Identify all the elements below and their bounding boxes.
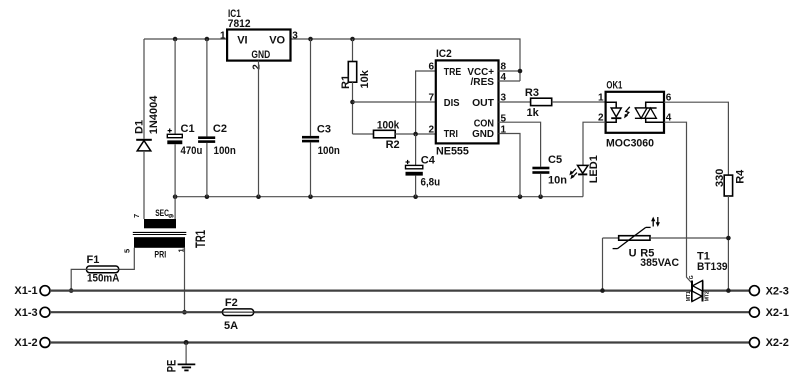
junction: PE tap on X1-2 line [184,340,189,345]
label OK1 [606,80,622,92]
wire: F1 left down to X1-1 line [71,269,86,290]
svg-text:330: 330 [714,169,726,187]
junction: C5 on GND rail [538,194,543,199]
svg-text:TR1: TR1 [193,230,208,248]
value 1N4004 (rotated) [148,95,160,134]
IC2 pin number 2 [428,125,434,136]
capacitor C2 [198,39,215,197]
svg-text:2: 2 [428,125,434,136]
label C1 [181,123,195,135]
IC1 pin name VO [269,35,285,47]
junction: C2 on GND rail [205,194,210,199]
wire: varistor left leg down to mains line [602,238,604,291]
wire: +V top rail left segment [144,38,227,40]
capacitor C4 (electrolytic) [406,134,423,197]
wire: OK1 pin 2 to LED1 [583,122,606,165]
svg-text:/RES: /RES [471,77,495,88]
svg-text:5: 5 [123,249,132,253]
svg-text:1: 1 [598,92,604,103]
svg-text:GND: GND [251,49,270,61]
svg-text:NE555: NE555 [436,146,469,158]
junction: TRI / C4 node [413,132,418,137]
wire: TRE net (pin 6 down to TRI node) [416,71,436,134]
label R2 [386,139,400,151]
wire: CON pin 5 to C5 [499,122,541,167]
svg-text:5: 5 [501,114,507,125]
wire: OUT pin 3 to R3 [499,101,531,103]
label D1 (rotated) [133,120,145,134]
TR1 SEC pin wire right to GND rail [174,197,176,219]
wire: PE stub [185,343,187,364]
junction: R4 leg on mains line [726,288,731,293]
svg-text:G: G [689,275,695,279]
svg-text:C3: C3 [317,124,331,136]
resistor R2 body [374,130,396,138]
svg-text:MOC3060: MOC3060 [606,138,654,150]
junction: pin8/pin4 on +V drop [518,69,523,74]
label R4 (rotated) [735,169,747,184]
label X2-1 [766,307,789,319]
svg-text:VI: VI [237,35,247,47]
label C3 [317,124,331,136]
value MOC3060 [606,138,654,150]
IC2 pin number 7 [428,93,434,104]
svg-text:7: 7 [428,93,434,104]
wire: PRI pin 5 down to F1 [119,248,135,270]
junction: IC1 GND pin on GND rail [256,194,261,199]
value 6,8u [421,177,441,189]
junction: varistor on mains line [600,288,605,293]
wire: R2 right to IC2 TRI pin 2 [395,133,436,135]
OK1 internal LED [606,102,622,122]
IC1 pin name VI [237,35,247,47]
label F1 [87,254,100,266]
svg-text:OK1: OK1 [606,80,622,92]
label LED1 (rotated) [588,155,600,183]
IC2 pin name CON [474,118,494,129]
value 100n (C2) [214,145,237,157]
svg-text:U: U [629,247,637,259]
label X2-2 [766,337,789,349]
value 470u [181,145,203,157]
label R1 (rotated) [340,75,352,89]
label PE (rotated) [167,360,179,373]
value BT139 [697,261,728,273]
wire: PRI pin 1 down to X1-3 line [184,248,186,312]
IC1 pin number 1 [220,31,226,42]
svg-text:GND: GND [472,129,494,140]
svg-text:CON: CON [474,118,494,129]
label T1 [697,251,710,263]
svg-text:D1: D1 [133,120,145,134]
wire: GND pin 1 to GND rail [499,134,521,197]
svg-text:F1: F1 [87,254,100,266]
timer IC2 body [436,60,499,143]
value 100k [377,120,400,132]
LED LED1 [578,165,589,196]
svg-text:150mA: 150mA [87,273,119,285]
svg-text:DIS: DIS [444,98,460,109]
svg-text:5A: 5A [224,320,238,332]
IC2 pin number 3 [501,93,507,104]
fuse F1 [87,266,119,273]
junction: C2 on top rail [205,37,210,42]
TR1 pin 5 (rotated) [123,249,132,253]
label IC1 [228,8,241,20]
ground PE symbol [178,364,196,370]
capacitor C5 [532,167,549,197]
TR1 winding name PRI [154,250,166,261]
svg-text:TRI: TRI [444,129,458,140]
svg-text:PRI: PRI [154,250,166,261]
svg-text:7: 7 [132,214,141,218]
diode D1 [136,140,152,151]
svg-text:6,8u: 6,8u [421,177,441,189]
label C5 [548,154,562,166]
svg-text:BT139: BT139 [697,261,728,273]
svg-text:100n: 100n [214,145,237,157]
terminal X1-1 [40,286,50,296]
svg-text:1N4004: 1N4004 [148,95,160,134]
junction: R1 on top rail [350,37,355,42]
IC2 pin name GND [472,129,494,140]
svg-text:MT2: MT2 [704,291,710,301]
wire: VCC pin 8 stub [499,70,521,72]
svg-text:C1: C1 [181,123,195,135]
svg-text:1: 1 [220,31,226,42]
junction: C1 on top rail [173,37,178,42]
value 330 (rotated) [714,169,726,187]
svg-text:100k: 100k [377,120,400,132]
label IC2 [436,48,452,60]
T1 terminal MT1 (rotated) [686,291,692,301]
wire: OK1 pin 6 to R4 [664,102,728,175]
varistor symbol letter U [629,247,637,259]
C1 plus sign [168,129,172,133]
transformer TR1 PRI coil [134,237,185,248]
svg-text:10n: 10n [548,174,567,186]
value 7812 [228,18,251,30]
TR1 pin 9 (rotated) [166,214,175,218]
svg-text:C5: C5 [548,154,562,166]
svg-text:X1-3: X1-3 [14,307,37,319]
OK1 pin number 1 [598,92,604,103]
label X1-1 [14,285,37,297]
capacitor C3 [302,39,319,197]
svg-text:C4: C4 [421,154,436,166]
wire: R1 bottom to R2 left [353,133,374,135]
IC2 pin name /RES [471,77,495,88]
svg-text:R3: R3 [525,87,539,99]
IC2 pin name OUT [472,98,494,109]
svg-text:C2: C2 [213,123,227,135]
T1 terminal MT2 (rotated) [704,291,710,301]
IC2 pin name TRI [444,129,458,140]
terminal X1-3 [40,307,50,317]
IC2 pin name DIS [444,98,460,109]
label TR1 (rotated) [193,230,208,248]
svg-text:385VAC: 385VAC [640,257,679,269]
fuse F2 [223,309,254,316]
svg-text:X2-3: X2-3 [766,285,789,297]
triac T1 [692,281,703,302]
junction: C3 on GND rail [308,194,313,199]
wire: mains line X1-3 to X2-1 [50,311,750,313]
svg-text:MT1: MT1 [686,291,692,301]
label X2-3 [766,285,789,297]
value 100n (C3) [318,145,341,157]
svg-text:PE: PE [167,360,179,373]
label X1-3 [14,307,37,319]
svg-text:1k: 1k [527,107,540,119]
svg-text:X2-1: X2-1 [766,307,789,319]
junction: F1 branch on X1-1 line [69,288,74,293]
svg-text:R1: R1 [340,75,352,89]
terminal X2-2 [750,338,760,348]
svg-text:2: 2 [252,64,263,70]
junction: C4 on GND rail [413,194,418,199]
svg-text:10k: 10k [359,69,371,88]
svg-text:LED1: LED1 [588,155,600,183]
TR1 pin 7 (rotated) [132,214,141,218]
optocoupler OK1 body [606,92,664,133]
junction: C3 on top rail [308,37,313,42]
svg-text:6: 6 [428,62,434,73]
terminal X2-1 [750,307,760,317]
C4 plus sign [406,160,410,164]
svg-text:9: 9 [166,214,175,218]
resistor R1 body [348,39,356,134]
svg-text:X2-2: X2-2 [766,337,789,349]
svg-text:7812: 7812 [228,18,251,30]
wire: top rail to D1 cathode [143,39,145,139]
IC1 pin name GND [251,49,270,61]
value 10n [548,174,567,186]
IC2 pin number 5 [501,114,507,125]
svg-text:R2: R2 [386,139,400,151]
svg-text:3: 3 [292,31,298,42]
wire: +V top rail right segment [291,39,521,81]
OK1 pin number 2 [598,112,604,123]
IC2 pin number 1 [501,125,507,136]
label C4 [421,154,436,166]
R5 surge arrows [651,217,660,227]
wire: R3 to OK1 pin 1 [552,101,606,103]
OK1 pin number 6 [666,92,672,103]
TR1 pin 1 (rotated) [177,248,186,252]
svg-text:TRE: TRE [444,67,462,78]
label F2 [225,297,238,309]
transformer TR1 SEC coil [144,219,176,228]
IC2 pin number 6 [428,62,434,73]
TR1 winding name SEC [155,208,169,219]
value 385VAC [640,257,679,269]
svg-text:IC2: IC2 [436,48,452,60]
OK1 pin number 4 [666,112,672,123]
IC2 pin number 4 [501,72,507,83]
IC2 pin name VCC+ [467,67,494,78]
label R5 [640,247,654,259]
resistor R4 body [724,175,732,196]
LED1 emission arrows [569,169,577,179]
wire: D1 anode down to TR1 SEC pin 7 [143,151,145,219]
terminal X2-3 [750,286,760,296]
svg-text:OUT: OUT [472,98,494,109]
T1 gate letter G (rotated) [689,275,695,279]
wire: DIS net to IC2 pin 7 [353,101,436,103]
wire: mains line triac MT2 to X2-3 [703,290,750,292]
wire: mains line X1-2 to X2-2 [50,341,750,343]
voltage regulator IC1 body [227,30,290,61]
junction: R1 / DIS node [350,100,355,105]
wire: R4 down to mains line [727,196,729,291]
IC2 pin number 8 [501,62,507,73]
value 1k [527,107,540,119]
wire: GND rail [175,196,583,198]
wire: OK1 pin 4 gate wire [664,122,692,283]
label R3 [525,87,539,99]
OK1 internal phototriac [635,102,664,122]
value NE555 [436,146,469,158]
wire: IC1 GND pin 2 down to GND rail [258,61,260,197]
terminal X1-2 [40,338,50,348]
IC2 pin name TRE [444,67,462,78]
svg-text:VO: VO [269,35,285,47]
label X1-2 [14,337,37,349]
wire: /RES pin 4 stub [499,80,521,82]
svg-text:470u: 470u [181,145,203,157]
resistor R3 body [531,98,552,105]
value 5A [224,320,238,332]
junction: PRI on X1-3 line [182,310,187,315]
IC1 pin number 2 (rotated) [252,64,263,70]
capacitor C1 (electrolytic) [167,39,182,197]
svg-text:X1-1: X1-1 [14,285,37,297]
junction: SEC/C1 on GND rail [173,194,178,199]
junction: IC2 GND on GND rail [518,194,523,199]
value 150mA [87,273,119,285]
label C2 [213,123,227,135]
svg-text:100n: 100n [318,145,341,157]
junction: varistor right on R4 leg [726,236,731,241]
varistor R5 [603,227,729,248]
svg-text:R4: R4 [735,169,747,184]
svg-text:X1-2: X1-2 [14,337,37,349]
OK1 internal light arrow [624,107,630,119]
svg-text:F2: F2 [225,297,238,309]
IC1 pin number 3 [292,31,298,42]
TR1 core [133,232,187,234]
wire: mains line X1-1 to triac MT1 [50,290,692,292]
value 10k (rotated) [359,69,371,88]
